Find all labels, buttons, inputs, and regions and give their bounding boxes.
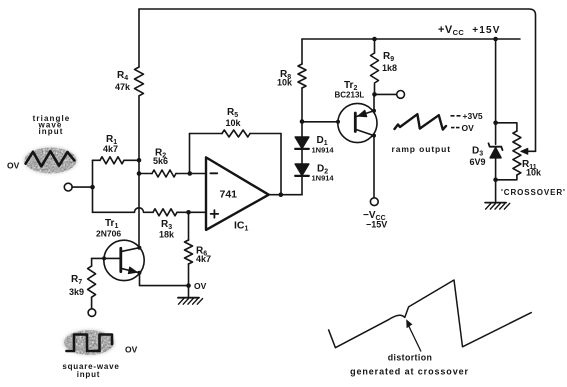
node R3 R6 + input: [186, 210, 191, 215]
blob Tr1 collector entry: [137, 246, 141, 250]
svg-text:741: 741: [220, 189, 238, 201]
svg-text:4k7: 4k7: [103, 144, 118, 154]
terminal ramp output: [397, 91, 405, 99]
wire R8 top lead: [301, 39, 303, 64]
resistor R9: [371, 53, 379, 83]
node input junction: [90, 185, 95, 190]
wire diode chain D1 lead: [301, 122, 303, 138]
diode D2: [295, 164, 309, 176]
svg-text:−15V: −15V: [366, 220, 387, 230]
svg-text:OV: OV: [125, 345, 138, 355]
svg-text:1N914: 1N914: [312, 174, 335, 183]
svg-text:generated at crossover: generated at crossover: [350, 367, 469, 377]
blob Tr1 emitter exit: [137, 271, 141, 275]
svg-text:BC213L: BC213L: [335, 91, 365, 100]
op-amp plus symbol: [211, 210, 219, 218]
svg-text:OV: OV: [194, 281, 207, 291]
blob Tr1 base entry: [102, 256, 106, 260]
node feedback / - input: [188, 171, 193, 176]
icon triangle wave: [26, 151, 75, 166]
svg-text:4k7: 4k7: [196, 254, 211, 264]
ground below crossover network: [485, 203, 510, 210]
node zener R11 bottom: [493, 178, 498, 183]
diode D1: [295, 137, 309, 149]
potentiometer wiper arrow: [521, 148, 528, 154]
label 0V level: [451, 127, 460, 129]
potentiometer wiper wire: [526, 150, 536, 152]
svg-text:+3V5: +3V5: [463, 111, 483, 121]
svg-text:1N914: 1N914: [312, 146, 335, 155]
wire R11 bottom: [496, 175, 517, 180]
wire D3 bottom lead: [495, 158, 497, 180]
transistor Tr1 base bar: [119, 248, 122, 271]
wire Tr1 emitter vertical to 0V: [140, 273, 189, 286]
wire Tr2 emitter vertical: [373, 94, 375, 110]
terminal square-wave input: [88, 309, 96, 317]
wire R6 bottom lead: [188, 264, 190, 286]
svg-text:1k8: 1k8: [382, 63, 397, 73]
icon ramp output wave: [395, 114, 447, 129]
op-amp minus symbol: [210, 172, 217, 174]
zener diode D3: [489, 143, 503, 158]
wire feedback top right lead: [250, 133, 281, 135]
svg-text:input: input: [38, 127, 63, 136]
wire feedback left vertical: [189, 134, 191, 174]
transistor Tr2 emitter arrow (PNP): [358, 110, 367, 117]
wire R2 to op-amp - input: [176, 173, 206, 175]
transistor Tr1 emitter arrow (NPN): [128, 267, 137, 274]
wire R7 bottom lead: [91, 297, 93, 309]
svg-text:3k9: 3k9: [69, 287, 84, 297]
wire D1-D2 lead: [301, 149, 303, 164]
resistor R1: [100, 157, 124, 164]
node R8 D1 Tr2 base: [300, 119, 305, 124]
node X / R2: [137, 171, 142, 176]
wire + input line with hop over node X: [93, 208, 154, 212]
wire Tr1 base: [92, 257, 120, 259]
wire Tr2 base: [302, 121, 354, 123]
svg-text:10k: 10k: [526, 168, 542, 178]
arrow to distortion notch: [408, 324, 421, 352]
transistor Tr1 emitter diagonal: [122, 269, 139, 273]
wire +Vcc to right branch vertical: [495, 39, 497, 144]
resistor R11: [513, 131, 521, 175]
node R9 emitter output: [372, 92, 377, 97]
transistor Q1 Tr1 circle: [104, 240, 144, 280]
svg-text:6V9: 6V9: [470, 157, 486, 167]
wire R1 left lead: [93, 159, 101, 161]
svg-text:OV: OV: [7, 161, 20, 171]
blob Tr2 base entry: [336, 120, 340, 124]
wire R1 to node X: [124, 159, 139, 161]
svg-text:5k6: 5k6: [153, 156, 168, 166]
wire input stub: [72, 186, 92, 188]
node +Vcc right branch: [493, 37, 498, 42]
svg-text:'CROSSOVER': 'CROSSOVER': [501, 188, 566, 197]
icon triangle wave blob: [24, 147, 78, 174]
wire R2 left lead: [139, 173, 152, 175]
svg-text:ramp output: ramp output: [392, 144, 451, 154]
wire top rail: [139, 9, 536, 151]
transistor Q2 Tr2 circle: [338, 103, 377, 142]
blob Tr2 collector exit: [372, 134, 376, 138]
transistor Tr1 collector diagonal: [122, 248, 139, 252]
svg-text:2N706: 2N706: [96, 229, 121, 239]
icon square wave: [67, 335, 113, 352]
wire R8 bottom lead: [301, 88, 303, 122]
svg-text:OV: OV: [462, 123, 475, 133]
terminal -Vcc: [370, 198, 378, 206]
wire R6 top lead: [188, 212, 190, 240]
wire op-amp output: [269, 194, 302, 196]
wire R3 to op-amp + input: [177, 211, 206, 213]
node +Vcc R9: [372, 37, 377, 42]
icon square wave blob: [63, 330, 115, 356]
svg-text:18k: 18k: [159, 230, 175, 240]
transistor Tr2 collector diagonal: [357, 130, 374, 136]
transistor Tr2 base bar: [354, 113, 357, 132]
wire R11 branch top: [496, 123, 517, 131]
resistor R2: [152, 170, 176, 177]
node X / R1: [137, 158, 142, 163]
svg-text:input: input: [77, 370, 101, 379]
ground below R6: [178, 286, 203, 305]
node op-amp output: [279, 192, 284, 197]
resistor R8: [298, 64, 306, 88]
node 0V R6 ground: [186, 283, 191, 288]
wire ground stub crossover: [495, 180, 497, 203]
blob Tr2 emitter entry: [372, 109, 376, 113]
wire R9 bottom lead: [374, 84, 376, 94]
resistor R9 top lead: [374, 39, 376, 53]
svg-text:10k: 10k: [277, 78, 293, 88]
wire Tr2 collector vertical: [373, 136, 375, 198]
wire feedback top left lead: [190, 133, 223, 135]
transistor Tr2 emitter diagonal: [357, 111, 374, 117]
wire +Vcc rail: [302, 38, 520, 40]
wire R4 upper lead from top rail: [138, 9, 140, 67]
resistor R5: [222, 130, 250, 137]
terminal triangle input: [64, 183, 72, 191]
svg-text:10k: 10k: [226, 118, 242, 128]
wire R7 top lead: [91, 258, 93, 266]
big distortion waveform: [328, 280, 531, 348]
node zener R11 top: [493, 121, 498, 126]
wire D2 bottom lead: [301, 176, 303, 195]
op-amp U1 741: [206, 157, 269, 230]
resistor R3: [153, 209, 177, 216]
svg-text:distortion: distortion: [388, 353, 433, 363]
label +3V5 level: [451, 115, 461, 117]
resistor R4: [135, 67, 144, 96]
wire node X vertical (R4 bottom to Tr1 collector): [138, 96, 140, 247]
wire ramp output stub: [375, 93, 397, 95]
svg-text:47k: 47k: [115, 82, 131, 92]
wire input vertical: [92, 160, 94, 212]
resistor R7: [88, 266, 96, 297]
resistor R6: [185, 240, 193, 264]
wire feedback right vertical: [280, 134, 282, 195]
